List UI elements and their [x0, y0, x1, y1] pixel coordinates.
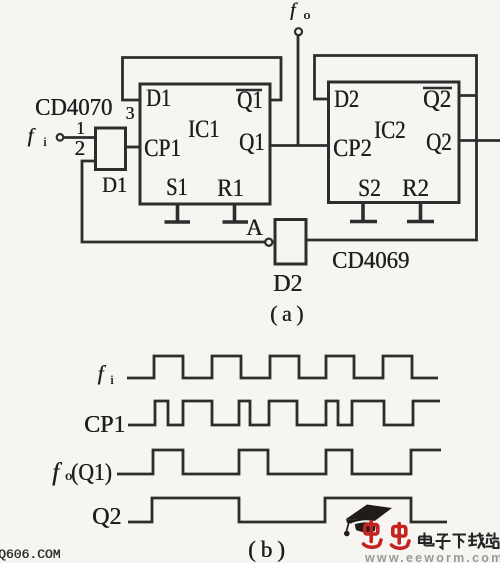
svg-text:www.eeworm.com: www.eeworm.com	[364, 551, 500, 563]
